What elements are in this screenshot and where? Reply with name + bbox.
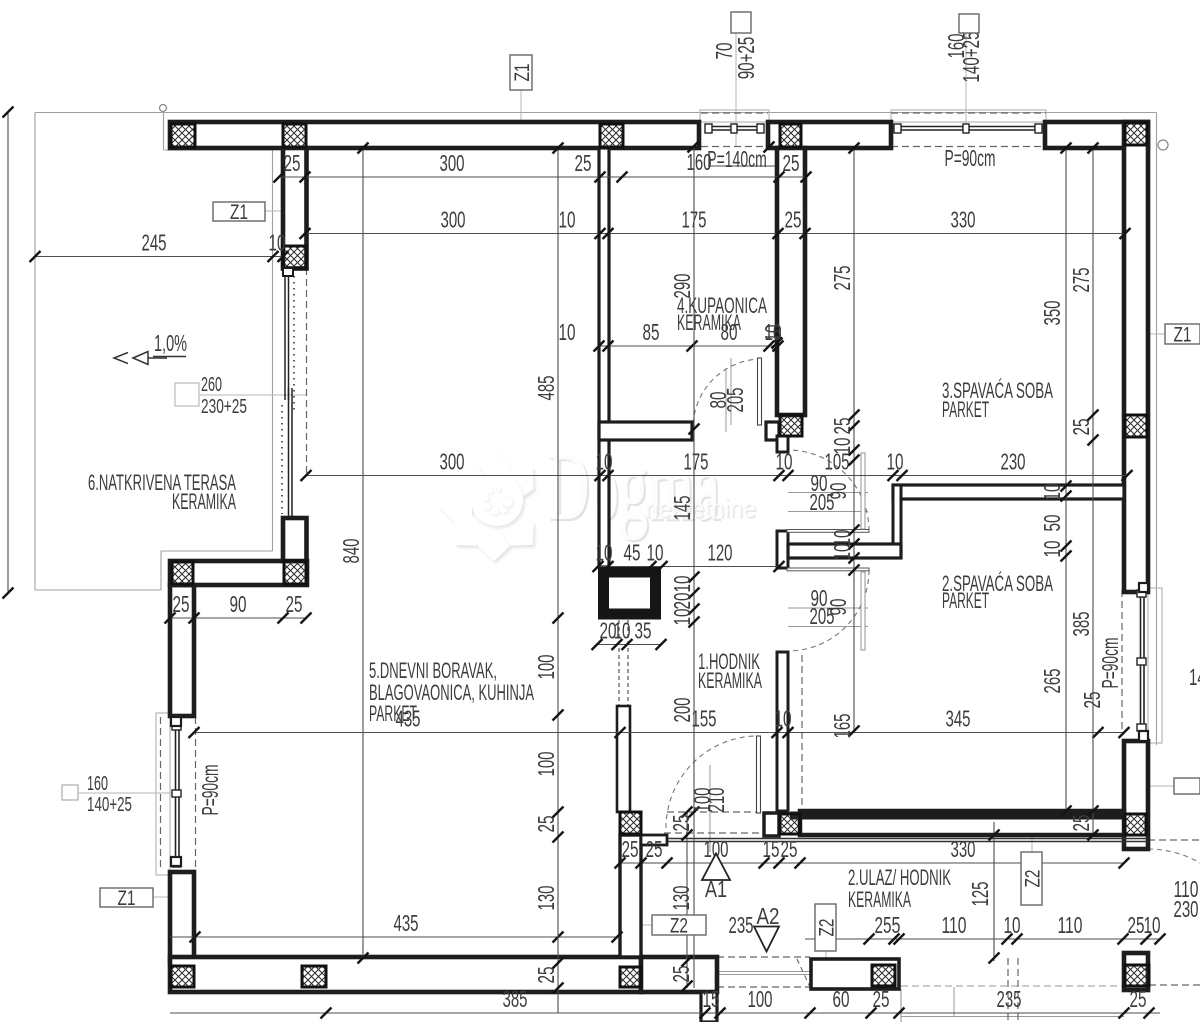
svg-text:25: 25 <box>284 150 301 176</box>
svg-text:235: 235 <box>997 986 1022 1012</box>
svg-text:25: 25 <box>533 967 559 984</box>
svg-text:25: 25 <box>785 207 802 233</box>
svg-text:25: 25 <box>875 912 892 938</box>
svg-text:10: 10 <box>596 449 613 475</box>
svg-text:350: 350 <box>1039 301 1065 326</box>
svg-text:Z1: Z1 <box>1174 324 1192 347</box>
svg-text:245: 245 <box>142 230 167 256</box>
svg-text:100: 100 <box>748 986 773 1012</box>
svg-text:10: 10 <box>776 449 793 475</box>
svg-text:25: 25 <box>1079 692 1105 709</box>
svg-text:KERAMIKA: KERAMIKA <box>172 489 236 514</box>
svg-text:130: 130 <box>533 886 559 911</box>
svg-text:140+25: 140+25 <box>958 32 984 83</box>
svg-text:20: 20 <box>669 593 695 610</box>
svg-text:10: 10 <box>669 576 695 593</box>
svg-text:90: 90 <box>825 483 851 500</box>
svg-text:60: 60 <box>833 986 850 1012</box>
svg-text:PARKET: PARKET <box>942 397 989 422</box>
svg-text:A2: A2 <box>757 903 780 929</box>
svg-text:P=90cm: P=90cm <box>945 145 996 171</box>
svg-text:Z1: Z1 <box>118 887 136 910</box>
svg-text:330: 330 <box>951 836 976 862</box>
svg-text:230+25: 230+25 <box>201 396 247 418</box>
svg-text:25: 25 <box>783 150 800 176</box>
svg-text:140: 140 <box>1189 664 1200 690</box>
svg-text:25: 25 <box>173 591 190 617</box>
svg-text:10: 10 <box>614 618 631 644</box>
svg-text:KERAMIKA: KERAMIKA <box>698 668 762 693</box>
svg-text:230: 230 <box>1001 449 1026 475</box>
svg-text:P=140cm: P=140cm <box>707 146 767 172</box>
svg-text:25: 25 <box>1068 419 1094 436</box>
svg-text:25: 25 <box>533 816 559 833</box>
svg-text:1,0%: 1,0% <box>154 330 187 356</box>
svg-text:200: 200 <box>669 698 695 723</box>
svg-text:50: 50 <box>1039 515 1065 532</box>
svg-text:Z1: Z1 <box>230 201 248 224</box>
svg-text:KERAMIKA: KERAMIKA <box>677 310 741 335</box>
svg-text:100: 100 <box>533 655 559 680</box>
svg-text:100: 100 <box>533 752 559 777</box>
svg-text:330: 330 <box>951 207 976 233</box>
svg-text:485: 485 <box>533 376 559 401</box>
svg-text:25: 25 <box>1128 912 1145 938</box>
svg-text:385: 385 <box>1068 612 1094 637</box>
svg-text:90+25: 90+25 <box>733 37 759 80</box>
svg-text:nekretnine: nekretnine <box>645 493 756 523</box>
svg-text:10: 10 <box>596 540 613 566</box>
svg-text:15: 15 <box>703 986 720 1012</box>
svg-text:260: 260 <box>201 374 222 396</box>
svg-text:25: 25 <box>829 418 855 435</box>
svg-text:A1: A1 <box>705 876 727 902</box>
svg-text:140+25: 140+25 <box>87 794 132 816</box>
svg-text:Z2: Z2 <box>1022 870 1045 888</box>
svg-text:155: 155 <box>692 706 717 732</box>
svg-text:130: 130 <box>668 886 694 911</box>
svg-text:Z1: Z1 <box>511 64 534 82</box>
svg-text:175: 175 <box>684 449 709 475</box>
svg-text:120: 120 <box>708 540 733 566</box>
svg-text:145: 145 <box>669 496 695 521</box>
svg-text:345: 345 <box>946 706 971 732</box>
svg-text:10: 10 <box>647 540 664 566</box>
svg-text:25: 25 <box>1130 986 1147 1012</box>
svg-text:25: 25 <box>668 966 694 983</box>
svg-text:10: 10 <box>669 609 695 626</box>
svg-text:Z2: Z2 <box>816 919 839 937</box>
svg-text:25: 25 <box>646 836 663 862</box>
svg-text:45: 45 <box>624 540 641 566</box>
svg-text:25: 25 <box>781 836 798 862</box>
svg-text:25: 25 <box>286 591 303 617</box>
svg-text:10: 10 <box>829 544 855 561</box>
svg-text:210: 210 <box>703 788 729 813</box>
svg-text:275: 275 <box>1068 268 1094 293</box>
svg-text:10: 10 <box>559 207 576 233</box>
svg-text:10: 10 <box>269 230 286 256</box>
svg-text:840: 840 <box>338 539 364 564</box>
svg-text:PARKET: PARKET <box>942 588 989 613</box>
svg-text:P=90cm: P=90cm <box>197 765 223 816</box>
svg-text:10: 10 <box>829 438 855 455</box>
svg-text:85: 85 <box>643 319 660 345</box>
svg-text:205: 205 <box>722 388 748 413</box>
svg-text:300: 300 <box>441 207 466 233</box>
svg-text:10: 10 <box>1039 484 1065 501</box>
svg-text:90: 90 <box>825 599 851 616</box>
svg-text:10: 10 <box>1004 912 1021 938</box>
svg-text:230: 230 <box>1174 896 1199 922</box>
svg-text:25: 25 <box>873 986 890 1012</box>
svg-text:35: 35 <box>635 618 652 644</box>
svg-text:Z2: Z2 <box>670 915 688 938</box>
svg-text:25: 25 <box>668 815 694 832</box>
svg-text:25: 25 <box>1068 815 1094 832</box>
svg-text:235: 235 <box>729 912 754 938</box>
svg-text:385: 385 <box>503 986 528 1012</box>
svg-text:265: 265 <box>1039 669 1065 694</box>
svg-text:300: 300 <box>440 150 465 176</box>
svg-text:25: 25 <box>622 836 639 862</box>
svg-text:P=90cm: P=90cm <box>1097 638 1123 689</box>
svg-text:125: 125 <box>967 882 993 907</box>
svg-text:10: 10 <box>1144 912 1161 938</box>
svg-text:165: 165 <box>829 714 855 739</box>
svg-text:110: 110 <box>942 912 967 938</box>
svg-text:25: 25 <box>575 150 592 176</box>
svg-text:10: 10 <box>1039 541 1065 558</box>
svg-text:10: 10 <box>559 319 576 345</box>
svg-text:10: 10 <box>775 706 792 732</box>
svg-text:5: 5 <box>892 912 901 938</box>
svg-text:15: 15 <box>763 836 780 862</box>
svg-text:110: 110 <box>1058 912 1083 938</box>
svg-text:435: 435 <box>394 910 419 936</box>
svg-text:275: 275 <box>829 266 855 291</box>
svg-text:KERAMIKA: KERAMIKA <box>848 887 911 912</box>
svg-text:PARKET: PARKET <box>369 701 417 726</box>
svg-text:90: 90 <box>230 591 247 617</box>
svg-text:300: 300 <box>440 449 465 475</box>
svg-text:160: 160 <box>87 773 108 795</box>
svg-text:10: 10 <box>887 449 904 475</box>
